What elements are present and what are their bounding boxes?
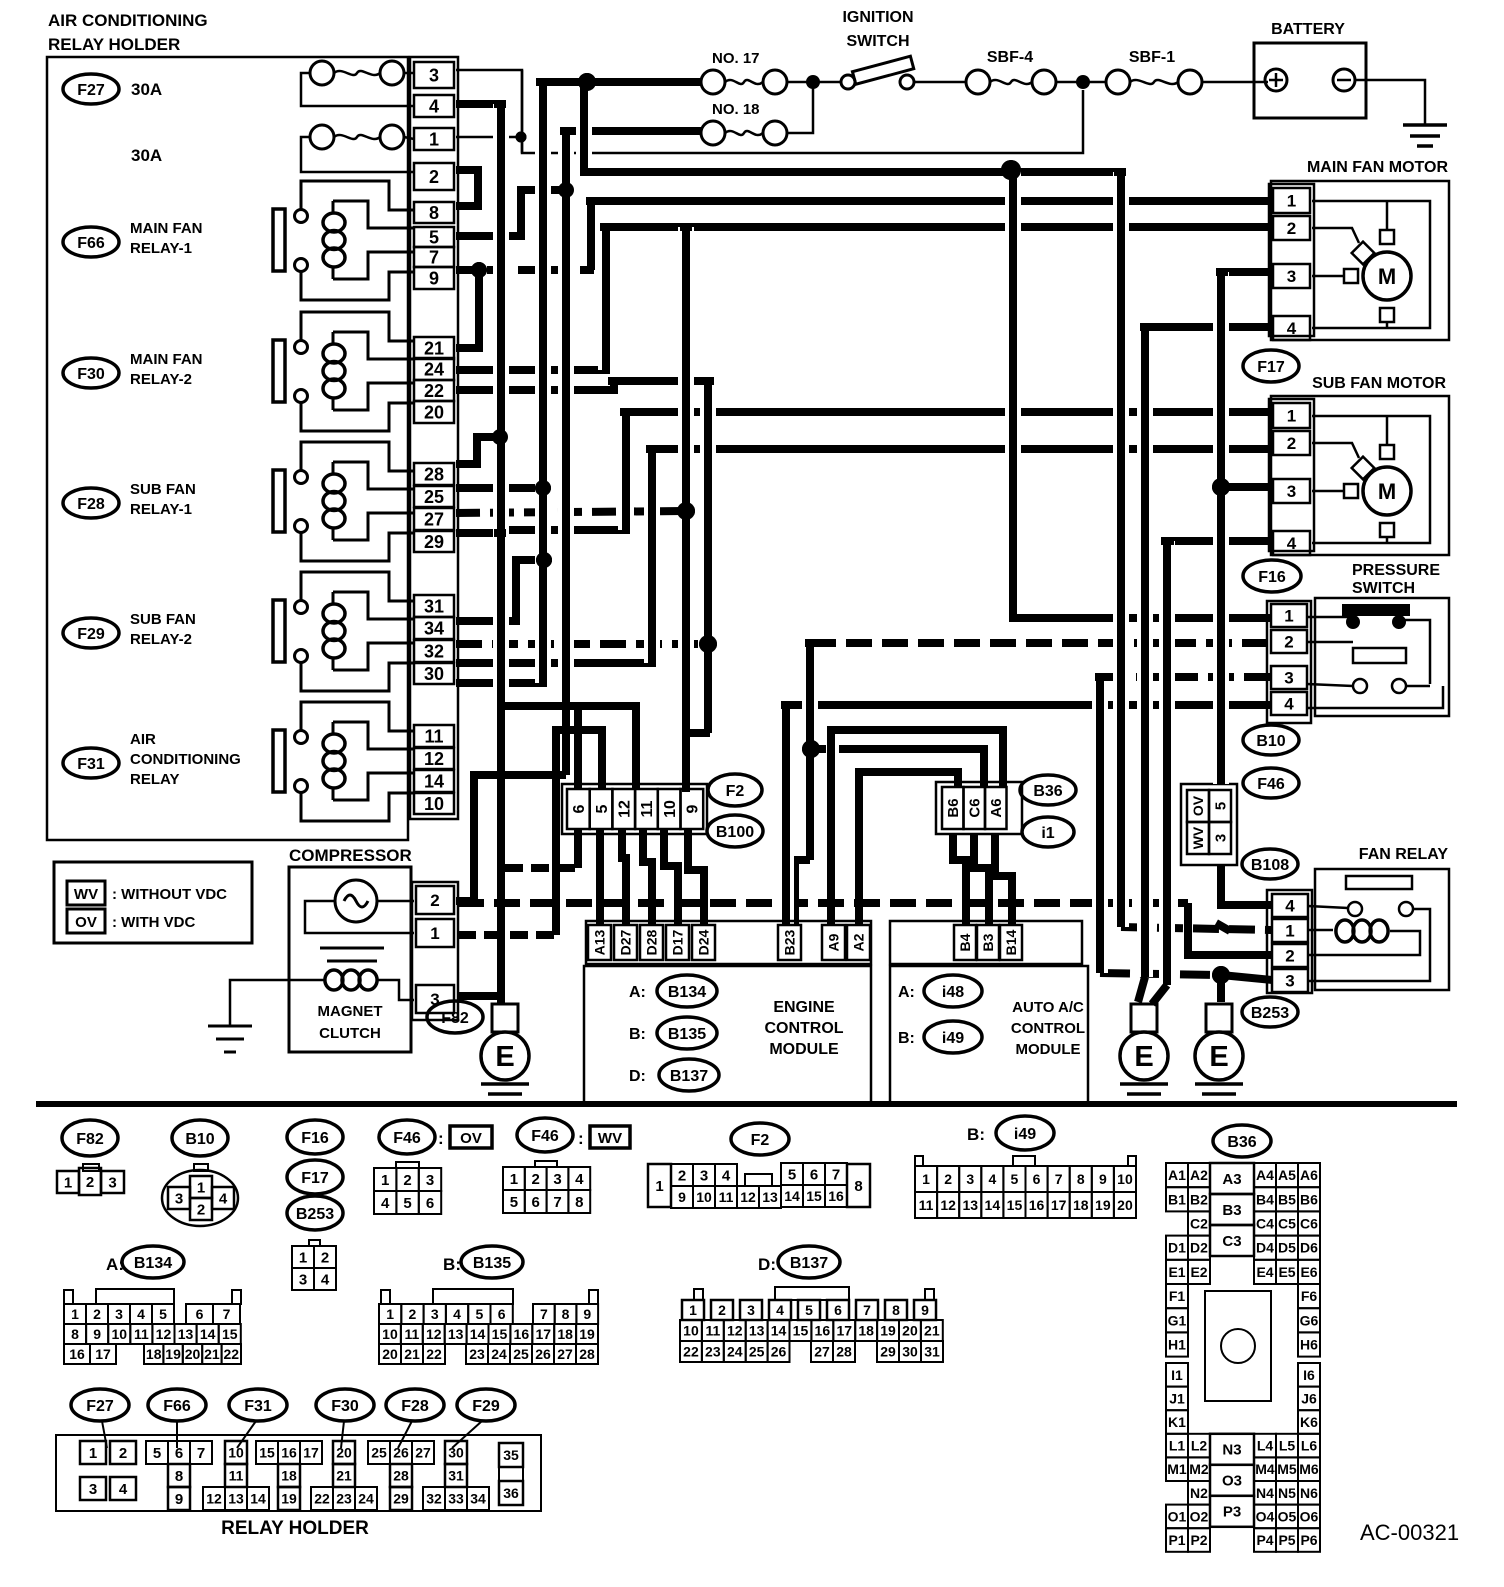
svg-text:5: 5 <box>429 227 439 247</box>
svg-text:6: 6 <box>1033 1171 1041 1187</box>
svg-text:13: 13 <box>749 1323 765 1339</box>
oval B36 bottom <box>1213 1125 1271 1157</box>
svg-text:16: 16 <box>69 1346 85 1362</box>
svg-text:25: 25 <box>424 487 444 507</box>
svg-text:B3: B3 <box>1222 1202 1241 1219</box>
svg-text:12: 12 <box>617 800 634 818</box>
svg-text:10: 10 <box>1117 1171 1133 1187</box>
svg-text:26: 26 <box>393 1445 409 1461</box>
svg-text:F30: F30 <box>331 1398 359 1415</box>
dashed wire compressor1 <box>458 931 556 939</box>
svg-text:12: 12 <box>424 749 444 769</box>
svg-text:D:: D: <box>758 1255 776 1274</box>
fuse NO. 17 <box>701 70 725 94</box>
strip cell 4 <box>414 95 454 117</box>
ignition switch blade <box>852 56 913 84</box>
svg-text:F2: F2 <box>726 783 745 800</box>
connector F82 pins <box>83 1164 99 1171</box>
svg-text:4: 4 <box>1284 695 1294 714</box>
svg-text:2: 2 <box>409 1306 417 1322</box>
svg-text:7: 7 <box>863 1302 871 1318</box>
svg-text:SUB FAN: SUB FAN <box>130 481 196 498</box>
svg-text:2: 2 <box>718 1302 726 1318</box>
svg-text:1: 1 <box>64 1174 72 1191</box>
wire fuse2 to cell 1 <box>404 137 414 139</box>
compressor box <box>289 867 411 1052</box>
svg-text:3: 3 <box>1287 267 1296 286</box>
oval F2 <box>708 774 762 806</box>
svg-text:B:: B: <box>898 1030 915 1047</box>
fan relay connector <box>1267 890 1312 993</box>
wire switch to SBF-4 <box>914 81 966 84</box>
svg-text:5: 5 <box>594 804 611 813</box>
svg-text:12: 12 <box>426 1326 442 1342</box>
junction dot cell28-V0 <box>492 429 508 445</box>
pressure switch lower contacts <box>1353 679 1367 693</box>
vertical x1167 SFM4 to E1 <box>1159 541 1175 985</box>
sub fan motor connector strip <box>1269 399 1314 551</box>
pressure switch element rect <box>1353 648 1406 663</box>
svg-text:12: 12 <box>206 1491 222 1507</box>
svg-text:M: M <box>1378 479 1396 504</box>
svg-text:SUB FAN MOTOR: SUB FAN MOTOR <box>1312 375 1446 392</box>
svg-text:B10: B10 <box>1256 733 1285 750</box>
oval F82 bottom <box>62 1120 118 1156</box>
connector B36 grid <box>1166 1163 1188 1187</box>
relay F29 oval label <box>63 618 119 648</box>
wire compressor cell3 to V0 <box>458 992 501 1000</box>
bracket A2 to B6 <box>859 772 958 924</box>
thin wire cell3 to SBF junction <box>456 70 1083 153</box>
battery plus terminal <box>1265 69 1287 91</box>
connector F46WV pins <box>535 1161 557 1167</box>
strip cell 29 <box>414 531 454 552</box>
svg-text:F16: F16 <box>301 1130 329 1147</box>
oval B253 <box>1242 997 1298 1027</box>
svg-text:10: 10 <box>111 1326 127 1342</box>
svg-text:22: 22 <box>424 381 444 401</box>
svg-text:19: 19 <box>281 1491 297 1507</box>
relay F31 bottom contact wire <box>301 792 414 821</box>
oval B10 <box>1243 725 1299 755</box>
svg-text:RELAY: RELAY <box>130 771 179 788</box>
separator line <box>36 1101 1457 1107</box>
relay F66 top contact wire <box>301 181 414 210</box>
fuse SBF-1 <box>1106 70 1130 94</box>
svg-text:SBF-4: SBF-4 <box>987 49 1033 66</box>
battery minus terminal <box>1333 69 1355 91</box>
svg-text:27: 27 <box>424 509 444 529</box>
svg-text:7: 7 <box>429 247 439 267</box>
svg-text:FAN RELAY: FAN RELAY <box>1359 846 1449 863</box>
svg-text:A5: A5 <box>1278 1167 1296 1183</box>
oval B10 bottom <box>172 1120 228 1156</box>
svg-text:L6: L6 <box>1301 1438 1318 1454</box>
wire SBF-1 to battery <box>1202 81 1268 84</box>
svg-text:4: 4 <box>381 1195 390 1212</box>
legend box WV OV <box>54 862 252 943</box>
svg-text:F46: F46 <box>1257 776 1285 793</box>
wire F2-10 to D17 <box>664 830 678 924</box>
svg-text:MAIN FAN: MAIN FAN <box>130 220 203 237</box>
svg-text:18: 18 <box>1073 1197 1089 1213</box>
engine control module box <box>584 966 871 1103</box>
svg-text:17: 17 <box>535 1326 551 1342</box>
svg-text:P3: P3 <box>1223 1504 1241 1521</box>
wire F2-12 to D27 <box>622 830 626 924</box>
svg-text:13: 13 <box>962 1197 978 1213</box>
svg-text:K6: K6 <box>1300 1414 1318 1430</box>
svg-text:PRESSURE: PRESSURE <box>1352 562 1440 579</box>
svg-text:B14: B14 <box>1003 929 1019 955</box>
svg-text:MAIN FAN: MAIN FAN <box>130 351 203 368</box>
svg-text:5: 5 <box>1011 1171 1019 1187</box>
relay F66 bottom contact wire <box>301 271 414 300</box>
svg-text:F46: F46 <box>393 1130 421 1147</box>
vertical x652 SFM2 <box>644 449 660 663</box>
svg-text:3: 3 <box>429 65 439 85</box>
junction dot E2 net <box>1212 966 1230 984</box>
main fan motor inner wiring <box>1312 201 1430 328</box>
svg-text:NO. 18: NO. 18 <box>712 101 760 118</box>
svg-text:21: 21 <box>424 338 444 358</box>
svg-text:M5: M5 <box>1277 1461 1297 1477</box>
junction dot cell1 branch <box>516 132 527 143</box>
svg-text:13: 13 <box>448 1326 464 1342</box>
svg-text:A:: A: <box>629 984 646 1001</box>
svg-text:10: 10 <box>683 1323 699 1339</box>
compressor motor circle <box>335 880 377 922</box>
svg-text:11: 11 <box>404 1326 419 1342</box>
junction dot SBF <box>1076 75 1090 89</box>
vertical x1221 dot to E3 <box>1217 975 1225 1002</box>
svg-text:N6: N6 <box>1300 1485 1318 1501</box>
junction patches <box>494 100 506 108</box>
wire cell30 to SFM2 riser <box>456 449 652 663</box>
svg-text:B137: B137 <box>790 1255 828 1272</box>
svg-text:B137: B137 <box>670 1068 708 1085</box>
main fan motor connector strip <box>1269 184 1314 336</box>
svg-text:E: E <box>1134 1041 1153 1073</box>
relay F66 contact points <box>295 210 308 223</box>
oval F82 <box>427 1001 483 1033</box>
relay F66 contact bar <box>273 209 285 271</box>
dashed wire ground dash868 <box>505 864 581 872</box>
svg-text:M2: M2 <box>1189 1461 1209 1477</box>
svg-text:22: 22 <box>314 1491 330 1507</box>
relay F31 contact bar <box>273 730 285 792</box>
elbow x708 to F2-9 riser <box>686 729 710 737</box>
svg-text:WV: WV <box>74 886 98 903</box>
svg-text:9: 9 <box>429 268 439 288</box>
svg-text:L2: L2 <box>1191 1438 1208 1454</box>
strip cell 27 <box>414 508 454 530</box>
svg-text:20: 20 <box>336 1445 352 1461</box>
svg-text:E2: E2 <box>1190 1264 1207 1280</box>
vertical cell24 riser casing <box>598 227 614 370</box>
wire cell5 jog to V3 <box>456 190 566 236</box>
svg-text:8: 8 <box>562 1306 570 1322</box>
junction dot NO.17/NO.18 <box>806 75 820 89</box>
connector F2 pins <box>648 1164 671 1207</box>
connector B253 pins <box>309 1240 320 1246</box>
svg-text:B:: B: <box>443 1255 461 1274</box>
svg-text:31: 31 <box>924 1344 940 1360</box>
wire cell29 to V0 <box>456 529 501 537</box>
svg-text:N5: N5 <box>1278 1485 1296 1501</box>
svg-text:F82: F82 <box>76 1131 104 1148</box>
vertical x708 H6 to elbow <box>700 381 716 733</box>
pressure switch connector <box>1267 601 1311 723</box>
relay F29 contact bar <box>273 600 285 662</box>
wire battery to ground <box>1355 80 1425 124</box>
svg-text:P5: P5 <box>1278 1532 1295 1548</box>
main fan motor box <box>1271 181 1449 340</box>
svg-text:34: 34 <box>470 1491 486 1507</box>
svg-text:20: 20 <box>185 1346 201 1362</box>
wire SBF-4 to SBF-1 with junction <box>1056 81 1106 84</box>
svg-text:E5: E5 <box>1278 1264 1295 1280</box>
svg-text:SBF-1: SBF-1 <box>1129 49 1175 66</box>
svg-text:A4: A4 <box>1256 1167 1274 1183</box>
vertical V2b y201 to dash270 <box>583 201 599 270</box>
svg-text:4: 4 <box>429 96 439 116</box>
svg-text:20: 20 <box>382 1346 398 1362</box>
svg-text:20: 20 <box>902 1323 918 1339</box>
svg-text:B135: B135 <box>668 1026 706 1043</box>
svg-text:16: 16 <box>1029 1197 1045 1213</box>
vertical x626 SFM1 <box>618 412 634 530</box>
svg-text:RELAY-1: RELAY-1 <box>130 501 192 518</box>
svg-text:2: 2 <box>197 1201 205 1218</box>
svg-text:9: 9 <box>93 1326 101 1342</box>
svg-text:10: 10 <box>662 800 679 818</box>
relay F30 top contact wire <box>301 312 414 341</box>
svg-text:27: 27 <box>415 1445 431 1461</box>
svg-text:14: 14 <box>200 1326 216 1342</box>
svg-text:21: 21 <box>404 1346 420 1362</box>
svg-text:28: 28 <box>836 1344 852 1360</box>
svg-text:1: 1 <box>1285 922 1294 941</box>
svg-text:1: 1 <box>1284 607 1293 626</box>
svg-text:F17: F17 <box>301 1170 329 1187</box>
svg-text:22: 22 <box>224 1346 240 1362</box>
svg-text:G6: G6 <box>1300 1312 1319 1328</box>
svg-text:25: 25 <box>371 1445 387 1461</box>
strip cell 25 <box>414 486 454 507</box>
wire NO.18 right to junction <box>787 82 813 133</box>
svg-text:D2: D2 <box>1190 1240 1208 1256</box>
svg-text:9: 9 <box>583 1306 591 1322</box>
svg-text:6: 6 <box>810 1166 818 1183</box>
oval F17 <box>1243 350 1299 382</box>
svg-text:O1: O1 <box>1168 1508 1187 1524</box>
svg-text:B10: B10 <box>185 1131 214 1148</box>
fuse NO. 18 <box>701 121 725 145</box>
magnet clutch plates <box>320 947 384 950</box>
svg-text:B253: B253 <box>296 1206 334 1223</box>
svg-text:M1: M1 <box>1167 1461 1187 1477</box>
svg-text:30A: 30A <box>131 146 162 165</box>
junction dot x1013 <box>1001 160 1021 180</box>
junction dot V1-cell34 <box>536 552 552 568</box>
svg-text:7: 7 <box>832 1166 840 1183</box>
pressure switch contact wires <box>1307 616 1353 619</box>
svg-text:24: 24 <box>491 1346 507 1362</box>
svg-text:B5: B5 <box>1278 1191 1296 1207</box>
svg-text:2: 2 <box>429 167 439 187</box>
wire cell25 to V1 <box>456 484 543 492</box>
svg-text:4: 4 <box>1287 534 1297 553</box>
svg-text:20: 20 <box>1117 1197 1133 1213</box>
jumper cell2 to cell8 <box>456 170 478 206</box>
wire bus NO.17 feed y82 <box>543 78 701 86</box>
svg-text:A2: A2 <box>1190 1167 1208 1183</box>
svg-text:WV: WV <box>598 1130 622 1147</box>
oval F17 bottom <box>287 1160 343 1194</box>
oval B253 bottom <box>287 1196 343 1230</box>
svg-text:F29: F29 <box>77 626 105 643</box>
vertical V3 NO.18 feed to compressor <box>558 131 574 775</box>
svg-text:B108: B108 <box>1251 857 1289 874</box>
svg-text:2: 2 <box>93 1306 101 1322</box>
wire SFM1 riser to cell29 net <box>501 412 626 530</box>
svg-text:13: 13 <box>228 1491 244 1507</box>
svg-text:N4: N4 <box>1256 1485 1274 1501</box>
svg-text:14: 14 <box>470 1326 486 1342</box>
svg-text:G1: G1 <box>1168 1312 1187 1328</box>
wire F2-6 risers <box>574 706 582 790</box>
junction dot cell27 net <box>677 502 695 520</box>
svg-text:3: 3 <box>108 1174 116 1191</box>
svg-text:B2: B2 <box>1190 1191 1208 1207</box>
svg-text:F2: F2 <box>751 1132 770 1149</box>
svg-text:1: 1 <box>510 1171 518 1188</box>
svg-text:36: 36 <box>503 1485 519 1501</box>
svg-text:A3: A3 <box>1222 1171 1241 1188</box>
vertical x1145 MFM4 to E1 <box>1137 327 1153 977</box>
svg-text:1: 1 <box>429 129 439 149</box>
svg-text:F82: F82 <box>441 1010 469 1027</box>
junction dots repaint <box>578 73 596 91</box>
junction dot x810 <box>802 740 820 758</box>
svg-text:27: 27 <box>814 1344 830 1360</box>
svg-text:D24: D24 <box>696 929 712 955</box>
svg-text:F27: F27 <box>86 1398 114 1415</box>
svg-text:C6: C6 <box>967 798 984 817</box>
vertical x786 PS4net to B23 <box>778 705 794 924</box>
vertical x686 H4 to F2-9 <box>678 227 694 792</box>
svg-text:F17: F17 <box>1257 359 1285 376</box>
wire F2-9 to D24 <box>688 830 704 924</box>
svg-text:OV: OV <box>1190 795 1206 816</box>
svg-text:1: 1 <box>71 1306 79 1322</box>
svg-text:1: 1 <box>89 1445 97 1462</box>
svg-text:6: 6 <box>834 1302 842 1318</box>
relay F30 oval label <box>63 358 119 388</box>
svg-text:i49: i49 <box>1014 1126 1036 1143</box>
svg-text:5: 5 <box>1212 802 1229 810</box>
svg-text:D28: D28 <box>644 929 660 955</box>
svg-text:26: 26 <box>535 1346 551 1362</box>
svg-text:AUTO A/C: AUTO A/C <box>1012 999 1084 1016</box>
relay F30 contact bar <box>273 340 285 402</box>
svg-text:D1: D1 <box>1168 1240 1186 1256</box>
fan relay case rect <box>1346 876 1412 889</box>
connector B137 pins <box>694 1289 703 1300</box>
svg-text:N3: N3 <box>1222 1442 1241 1459</box>
svg-text:10: 10 <box>382 1326 398 1342</box>
relay F31 coil <box>333 722 414 749</box>
vertical V1 main casing <box>535 86 551 683</box>
svg-text:3: 3 <box>1284 669 1293 688</box>
svg-text:4: 4 <box>119 1481 128 1498</box>
svg-text:2: 2 <box>1285 947 1294 966</box>
svg-text:10: 10 <box>696 1189 712 1205</box>
dashed wire compressor2 to fan relay 2 <box>458 899 1188 907</box>
wire dot SFM3 branch <box>1221 483 1272 491</box>
svg-text:C3: C3 <box>1222 1233 1241 1250</box>
svg-text:A1: A1 <box>1168 1167 1186 1183</box>
wire MFM3 riser <box>1221 272 1272 276</box>
wire fuse F27 to cell 4 <box>301 73 414 106</box>
svg-text:5: 5 <box>159 1306 167 1322</box>
svg-text:4: 4 <box>575 1171 584 1188</box>
svg-text:P4: P4 <box>1256 1532 1273 1548</box>
svg-text:10: 10 <box>228 1445 244 1461</box>
svg-text:32: 32 <box>426 1491 442 1507</box>
svg-text:5: 5 <box>788 1166 796 1183</box>
compressor wiring <box>377 900 414 903</box>
svg-text:L1: L1 <box>1169 1438 1186 1454</box>
strip cell 30 <box>414 663 454 684</box>
svg-text:COMPRESSOR: COMPRESSOR <box>289 846 412 865</box>
battery box <box>1254 43 1366 118</box>
svg-text:D27: D27 <box>618 929 634 955</box>
svg-text:F28: F28 <box>401 1398 429 1415</box>
connector B135 pins <box>381 1290 390 1304</box>
svg-text:18: 18 <box>858 1323 874 1339</box>
main fan motor motor circle <box>1363 252 1411 300</box>
strip cell 21 <box>414 337 454 359</box>
svg-text:2: 2 <box>321 1249 329 1266</box>
svg-text:B253: B253 <box>1251 1005 1289 1022</box>
svg-text::: : <box>438 1129 444 1148</box>
svg-text:D17: D17 <box>670 929 686 955</box>
svg-text:18: 18 <box>146 1346 162 1362</box>
relay F29 contact points <box>295 601 308 614</box>
wire fuse2 to cell 2 <box>301 137 414 172</box>
svg-text:16: 16 <box>281 1445 297 1461</box>
leader lines <box>102 1421 107 1448</box>
svg-text:3: 3 <box>700 1167 708 1184</box>
svg-text:24: 24 <box>358 1491 374 1507</box>
svg-text:1: 1 <box>197 1179 205 1196</box>
dashed wire cell32 y644 <box>456 640 708 648</box>
svg-text:RELAY HOLDER: RELAY HOLDER <box>48 35 180 54</box>
svg-text:2: 2 <box>1287 434 1296 453</box>
svg-text:7: 7 <box>553 1194 561 1211</box>
oval F16 <box>1243 560 1301 592</box>
svg-text:P2: P2 <box>1190 1532 1207 1548</box>
svg-text:B36: B36 <box>1033 783 1062 800</box>
svg-text:F27: F27 <box>77 82 105 99</box>
wire bus y172 to right column <box>584 168 1121 176</box>
dashed wire fan relay 1 feed <box>1121 927 1272 930</box>
svg-text:15: 15 <box>259 1445 275 1461</box>
svg-text:B100: B100 <box>716 824 754 841</box>
svg-text:14: 14 <box>985 1197 1001 1213</box>
